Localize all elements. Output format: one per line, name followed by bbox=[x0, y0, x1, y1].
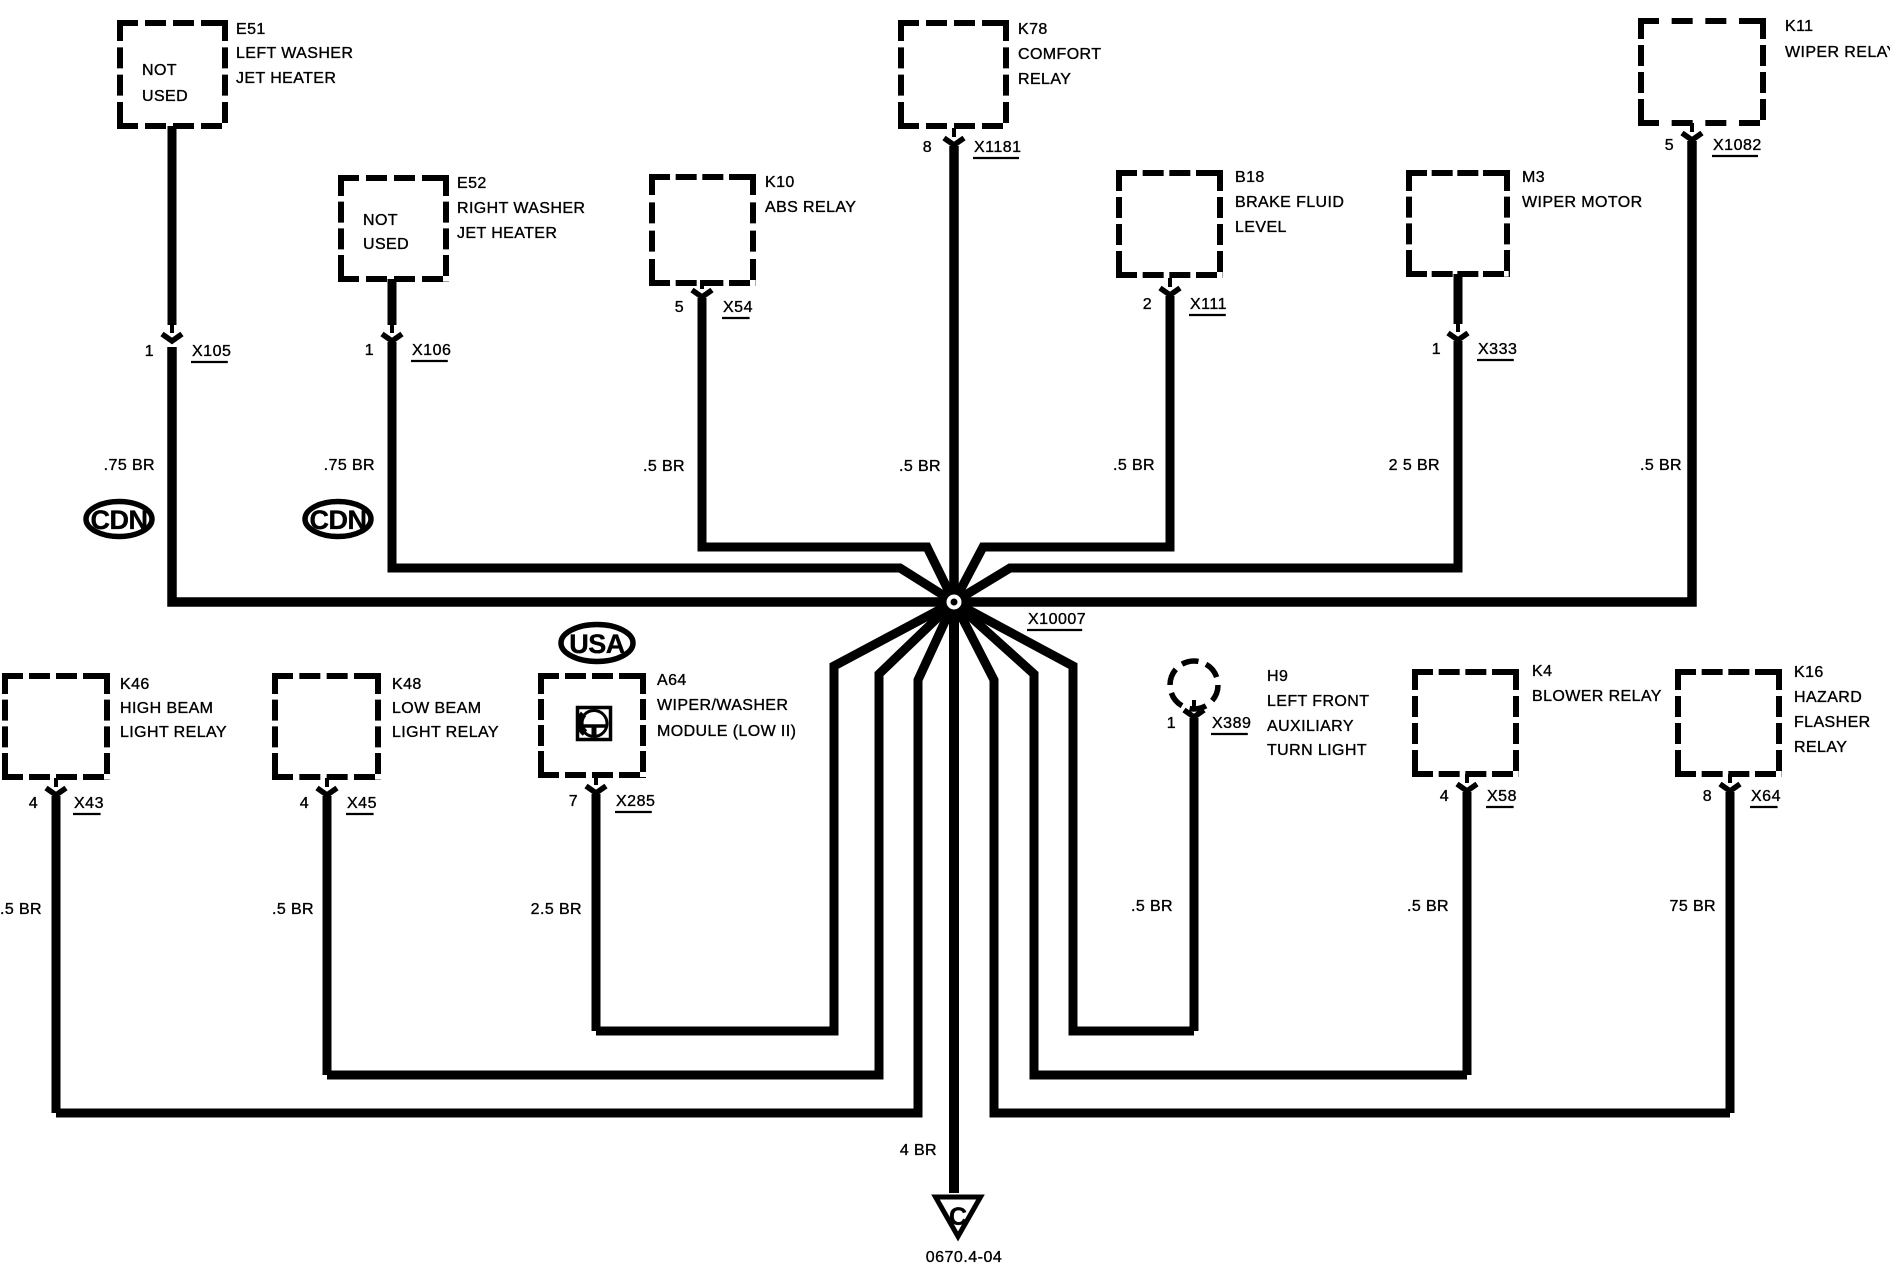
label K78 bbox=[1018, 21, 1101, 88]
svg-text:K46: K46 bbox=[120, 676, 150, 693]
svg-text:.5 BR: .5 BR bbox=[1640, 457, 1682, 474]
svg-text:C: C bbox=[949, 1203, 967, 1231]
svg-text:B18: B18 bbox=[1235, 169, 1265, 186]
svg-text:X111: X111 bbox=[1190, 296, 1227, 313]
relay K10 box (ABS relay) bbox=[649, 174, 756, 286]
component E51 box (left washer jet heater) bbox=[117, 20, 228, 129]
svg-text:WIPER/WASHER: WIPER/WASHER bbox=[657, 697, 788, 714]
relay K78 box (comfort relay) bbox=[898, 20, 1009, 129]
relay K4 box (blower relay) bbox=[1412, 669, 1519, 777]
CDN oval marker (E52 wire) bbox=[305, 502, 371, 537]
label K48 bbox=[392, 676, 499, 741]
svg-text:JET HEATER: JET HEATER bbox=[457, 225, 557, 242]
label X389 bbox=[1211, 715, 1251, 734]
svg-text:1: 1 bbox=[1432, 341, 1441, 358]
label X106 bbox=[411, 342, 451, 361]
svg-text:4: 4 bbox=[1440, 788, 1449, 805]
label X10007 bbox=[1027, 611, 1086, 630]
svg-text:2.5 BR: 2.5 BR bbox=[531, 901, 582, 918]
label X1082 bbox=[1712, 137, 1762, 156]
svg-text:JET HEATER: JET HEATER bbox=[236, 70, 336, 87]
svg-text:5: 5 bbox=[675, 299, 684, 316]
svg-text:LEVEL: LEVEL bbox=[1235, 219, 1287, 236]
svg-text:K11: K11 bbox=[1785, 18, 1813, 35]
wire E51 pin1 to ground bus and bus to K11 (main horizontal bus) bbox=[172, 141, 1692, 602]
label H9 bbox=[1267, 668, 1369, 759]
svg-text:X1181: X1181 bbox=[974, 139, 1022, 156]
label B18 bbox=[1235, 169, 1344, 236]
svg-text:X58: X58 bbox=[1487, 788, 1517, 805]
connector X1181 symbol bbox=[944, 128, 964, 145]
svg-text:1: 1 bbox=[1167, 715, 1176, 732]
wire K46 to fan horizontal bbox=[52, 796, 61, 1113]
wire H9 to fan horizontal bbox=[1190, 718, 1199, 1031]
component E52 box (right washer jet heater) bbox=[338, 175, 449, 282]
label A64 bbox=[657, 672, 796, 740]
svg-text:1: 1 bbox=[145, 343, 154, 360]
label X58 bbox=[1486, 788, 1517, 807]
svg-text:.5 BR: .5 BR bbox=[272, 901, 314, 918]
wire K78 to ground node (vertical) bbox=[949, 146, 959, 602]
svg-text:ABS RELAY: ABS RELAY bbox=[765, 199, 856, 216]
label X1181 bbox=[973, 139, 1022, 158]
ground symbol C (triangle) bbox=[936, 1197, 981, 1237]
svg-text:LOW BEAM: LOW BEAM bbox=[392, 700, 481, 717]
svg-text:4: 4 bbox=[300, 795, 309, 812]
label X43 bbox=[73, 795, 104, 814]
svg-text:X285: X285 bbox=[616, 793, 655, 810]
label X64 bbox=[1750, 788, 1781, 807]
svg-text:USED: USED bbox=[363, 236, 409, 253]
connector X389 symbol bbox=[1184, 700, 1204, 717]
svg-text:5: 5 bbox=[1665, 137, 1674, 154]
svg-text:WIPER MOTOR: WIPER MOTOR bbox=[1522, 194, 1643, 211]
wire fan to H9 (right) bbox=[954, 602, 1194, 1031]
svg-text:USED: USED bbox=[142, 88, 188, 105]
svg-text:X64: X64 bbox=[1751, 788, 1781, 805]
svg-text:.5 BR: .5 BR bbox=[1113, 457, 1155, 474]
connector X106 symbol bbox=[382, 324, 402, 341]
wire B18 to ground node bbox=[954, 296, 1170, 602]
svg-text:X105: X105 bbox=[192, 343, 231, 360]
svg-text:.5 BR: .5 BR bbox=[1131, 898, 1173, 915]
svg-text:.5 BR: .5 BR bbox=[1407, 898, 1449, 915]
label E52 bbox=[457, 175, 585, 242]
svg-text:75 BR: 75 BR bbox=[1670, 898, 1716, 915]
connector X54 symbol bbox=[692, 280, 712, 297]
svg-text:X54: X54 bbox=[723, 299, 753, 316]
label M3 bbox=[1522, 169, 1643, 211]
wire fan to K16 (right) bbox=[954, 602, 1730, 1113]
svg-text:8: 8 bbox=[923, 139, 932, 156]
svg-text:4: 4 bbox=[29, 795, 38, 812]
label K4 bbox=[1532, 663, 1662, 705]
svg-text:CDN: CDN bbox=[91, 505, 148, 535]
svg-text:K10: K10 bbox=[765, 174, 795, 191]
wire ground node to C triangle (4 BR) bbox=[949, 602, 959, 1193]
connector X1082 symbol bbox=[1682, 123, 1702, 140]
connector X105 symbol bbox=[162, 324, 182, 341]
svg-text:.5 BR: .5 BR bbox=[0, 901, 42, 918]
wire E51 box to connector X105 bbox=[168, 126, 177, 325]
svg-text:X43: X43 bbox=[74, 795, 104, 812]
svg-text:X1082: X1082 bbox=[1713, 137, 1762, 154]
label E51 bbox=[236, 21, 353, 87]
svg-text:BRAKE FLUID: BRAKE FLUID bbox=[1235, 194, 1344, 211]
wire fan to A64 (left) bbox=[596, 602, 954, 1031]
svg-text:K4: K4 bbox=[1532, 663, 1552, 680]
svg-text:NOT: NOT bbox=[363, 212, 398, 229]
wire K48 to fan horizontal bbox=[323, 796, 332, 1075]
svg-text:X389: X389 bbox=[1212, 715, 1251, 732]
svg-text:LEFT FRONT: LEFT FRONT bbox=[1267, 693, 1369, 710]
svg-text:E52: E52 bbox=[457, 175, 487, 192]
svg-text:FLASHER: FLASHER bbox=[1794, 714, 1871, 731]
sensor B18 box (brake fluid level) bbox=[1116, 170, 1223, 278]
wire K4 to fan horizontal bbox=[1463, 792, 1472, 1075]
svg-text:RELAY: RELAY bbox=[1794, 739, 1847, 756]
svg-text:A64: A64 bbox=[657, 672, 687, 689]
CDN oval marker (E51 wire) bbox=[86, 502, 152, 537]
svg-text:X333: X333 bbox=[1478, 341, 1517, 358]
svg-text:CDN: CDN bbox=[310, 505, 367, 535]
label K11 bbox=[1785, 18, 1890, 61]
connector X43 symbol bbox=[46, 778, 66, 795]
svg-text:X106: X106 bbox=[412, 342, 451, 359]
ground node X10007 (splice) bbox=[941, 589, 967, 615]
label X45 bbox=[346, 795, 377, 814]
wire fan to K48 (left) bbox=[327, 602, 954, 1075]
svg-text:2: 2 bbox=[1143, 296, 1152, 313]
label K16 bbox=[1794, 664, 1871, 756]
svg-text:2 5 BR: 2 5 BR bbox=[1389, 457, 1440, 474]
label X333 bbox=[1477, 341, 1517, 360]
svg-text:7: 7 bbox=[569, 793, 578, 810]
svg-text:HIGH BEAM: HIGH BEAM bbox=[120, 700, 213, 717]
svg-text:LEFT WASHER: LEFT WASHER bbox=[236, 45, 353, 62]
svg-text:K16: K16 bbox=[1794, 664, 1824, 681]
svg-text:M3: M3 bbox=[1522, 169, 1545, 186]
wire fan to K4 (right) bbox=[954, 602, 1467, 1075]
connector X333 symbol bbox=[1448, 323, 1468, 340]
connector X64 symbol bbox=[1720, 774, 1740, 791]
relay K16 box (hazard flasher relay) bbox=[1675, 669, 1782, 777]
svg-text:MODULE (LOW II): MODULE (LOW II) bbox=[657, 723, 796, 740]
label K10 bbox=[765, 174, 856, 216]
svg-text:WIPER RELAY: WIPER RELAY bbox=[1785, 44, 1890, 61]
svg-text:AUXILIARY: AUXILIARY bbox=[1267, 718, 1354, 735]
label K46 bbox=[120, 676, 227, 741]
label X111 bbox=[1189, 296, 1227, 315]
label X285 bbox=[615, 793, 655, 812]
svg-text:0670.4-04: 0670.4-04 bbox=[926, 1249, 1003, 1264]
svg-text:8: 8 bbox=[1703, 788, 1712, 805]
svg-text:1: 1 bbox=[365, 342, 374, 359]
svg-text:LIGHT RELAY: LIGHT RELAY bbox=[120, 724, 227, 741]
svg-text:COMFORT: COMFORT bbox=[1018, 46, 1101, 63]
svg-text:HAZARD: HAZARD bbox=[1794, 689, 1862, 706]
svg-text:RIGHT WASHER: RIGHT WASHER bbox=[457, 200, 585, 217]
relay K11 box (wiper relay) bbox=[1638, 18, 1766, 126]
connector X285 symbol bbox=[586, 776, 606, 793]
label X54 bbox=[722, 299, 753, 318]
svg-text:USA: USA bbox=[569, 629, 625, 659]
svg-text:X10007: X10007 bbox=[1028, 611, 1086, 628]
lamp H9 dashed circle (left front auxiliary turn light) bbox=[1170, 661, 1218, 709]
wire M3 box to connector X333 bbox=[1454, 274, 1463, 324]
relay K46 box (high beam light relay) bbox=[2, 673, 110, 780]
svg-text:NOT: NOT bbox=[142, 62, 177, 79]
svg-text:H9: H9 bbox=[1267, 668, 1288, 685]
svg-text:.5 BR: .5 BR bbox=[899, 458, 941, 475]
svg-text:TURN LIGHT: TURN LIGHT bbox=[1267, 742, 1367, 759]
connector X58 symbol bbox=[1457, 774, 1477, 791]
connector X45 symbol bbox=[317, 778, 337, 795]
svg-text:K48: K48 bbox=[392, 676, 422, 693]
wire K10 to ground node bbox=[702, 298, 954, 602]
connector X111 symbol bbox=[1160, 278, 1180, 295]
svg-text:LIGHT RELAY: LIGHT RELAY bbox=[392, 724, 499, 741]
USA oval marker (A64) bbox=[561, 625, 633, 662]
motor M3 box (wiper motor) bbox=[1406, 170, 1510, 277]
wire E52 box to connector X106 stub bbox=[388, 279, 397, 325]
module A64 box (wiper/washer module) bbox=[538, 673, 646, 778]
svg-text:.75 BR: .75 BR bbox=[104, 457, 155, 474]
wire E52 to ground node bbox=[392, 342, 954, 602]
svg-text:X45: X45 bbox=[347, 795, 377, 812]
wire A64 to fan horizontal bbox=[592, 794, 601, 1031]
wire K16 to fan horizontal bbox=[1726, 792, 1735, 1113]
svg-text:E51: E51 bbox=[236, 21, 266, 38]
wire M3 to ground node bbox=[954, 341, 1458, 602]
svg-text:RELAY: RELAY bbox=[1018, 71, 1071, 88]
svg-text:.75 BR: .75 BR bbox=[324, 457, 375, 474]
wire fan to K46 (left) bbox=[56, 602, 954, 1113]
svg-text:4 BR: 4 BR bbox=[900, 1142, 937, 1159]
icon wiper/washer symbol inside A64 bbox=[578, 708, 611, 740]
svg-text:BLOWER RELAY: BLOWER RELAY bbox=[1532, 688, 1662, 705]
relay K48 box (low beam light relay) bbox=[272, 673, 381, 780]
svg-text:.5 BR: .5 BR bbox=[643, 458, 685, 475]
svg-text:K78: K78 bbox=[1018, 21, 1048, 38]
label X105 bbox=[191, 343, 231, 362]
